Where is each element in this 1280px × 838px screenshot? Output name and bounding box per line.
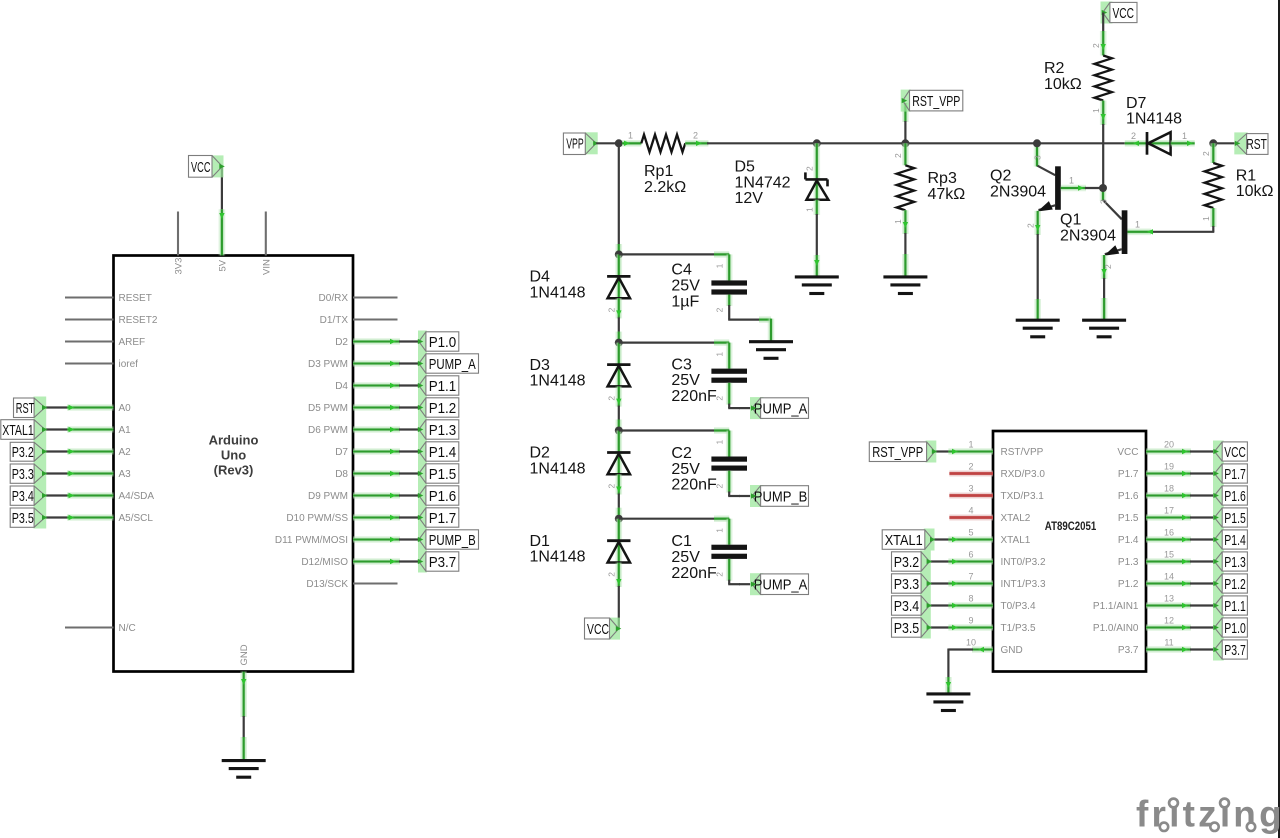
wire P3.5 to pin (930, 625, 993, 630)
svg-text:C3: C3 (671, 356, 692, 373)
wire node E to Q1 collector (1103, 188, 1122, 219)
net label XTAL1 (AT89) (882, 529, 935, 551)
wire RST_VPP to pin 1 (935, 449, 993, 454)
net label P1.2 (418, 397, 459, 419)
pin 5V name (217, 259, 228, 271)
svg-text:VIN: VIN (261, 259, 272, 275)
pin number 1 (968, 440, 973, 450)
net label RST_VPP (AT89) (869, 441, 937, 463)
label D3 value (530, 357, 586, 390)
pin number 16 (1164, 528, 1174, 538)
pin number 5 (968, 528, 973, 538)
svg-text:P1.5: P1.5 (1224, 510, 1246, 527)
pin number 2 (C3) (715, 396, 725, 401)
net label PUMP_B (C2) (750, 485, 809, 507)
svg-text:5V: 5V (217, 259, 228, 271)
wire pin D6 PWM to P1.3 (353, 427, 419, 432)
svg-text:1: 1 (715, 263, 725, 268)
wire node to D1 (615, 519, 622, 563)
svg-text:P1.3: P1.3 (429, 422, 457, 439)
net label RST (right) (1234, 132, 1268, 154)
svg-text:VCC: VCC (191, 159, 211, 176)
pin A3 name (119, 469, 132, 480)
wire D7 anode stub (1125, 141, 1147, 146)
wire D2 anode down (616, 474, 621, 518)
pin 13 name P1.1/AIN1 (1093, 601, 1139, 612)
pin number 1 (C2) (715, 440, 725, 445)
label Rp1 value (644, 163, 686, 196)
pin number 2 (D5) (805, 166, 815, 171)
svg-text:XTAL1: XTAL1 (885, 532, 923, 549)
wire TXD ratsnest (949, 492, 993, 498)
pin number 2 (D7) (1131, 131, 1136, 141)
wire to pin A1 (45, 427, 114, 432)
wire to pin A2 (45, 449, 114, 454)
svg-text:RST/VPP: RST/VPP (1001, 447, 1044, 458)
wire to pin A0 (45, 405, 114, 410)
svg-text:2: 2 (693, 131, 698, 141)
net label P3.5 (AT89) (892, 617, 933, 639)
junction node pump2 (615, 339, 623, 347)
svg-text:RESET2: RESET2 (119, 315, 158, 326)
svg-text:2: 2 (715, 396, 725, 401)
net label P3.7 (418, 551, 459, 573)
net label VCC (top left) (189, 155, 225, 177)
svg-text:P1.7: P1.7 (1118, 469, 1139, 480)
pin 7 name INT1/P3.3 (1001, 579, 1046, 590)
pin VIN name (261, 259, 272, 275)
wire C1 to PUMP_A (728, 559, 750, 584)
junction node pump1 (615, 250, 623, 258)
pin VIN stub (265, 212, 267, 256)
svg-text:PUMP_A: PUMP_A (429, 356, 476, 373)
resistor R1 (1205, 163, 1222, 208)
ground symbol (Rp3) (883, 277, 927, 294)
pin 10 name GND (1001, 645, 1023, 656)
wire to pin A4/SDA (45, 493, 114, 498)
net label P1.7 (418, 507, 459, 529)
svg-text:D1/TX: D1/TX (320, 315, 349, 326)
net label P3.4 (10, 485, 47, 507)
pin RESET stub (65, 296, 114, 298)
svg-text:25V: 25V (671, 372, 700, 389)
label C1 value (671, 533, 717, 582)
border right edge (1278, 0, 1280, 838)
svg-text:D1: D1 (530, 533, 551, 550)
svg-text:220nF: 220nF (671, 477, 717, 494)
wire pin 16 to P1.4 (1146, 537, 1214, 542)
svg-text:3: 3 (1032, 155, 1042, 160)
svg-text:1: 1 (628, 131, 633, 141)
wire pin 14 to P1.2 (1146, 581, 1214, 586)
svg-text:ioref: ioref (119, 359, 139, 370)
svg-text:P1.1: P1.1 (429, 378, 457, 395)
pin number 2 (R2) (1091, 43, 1101, 48)
svg-text:P3.3: P3.3 (12, 466, 34, 483)
svg-text:25V: 25V (671, 461, 700, 478)
wire D5 node to Rp3 node (817, 142, 906, 144)
wire VCC to R2 (1101, 13, 1106, 56)
pin 4 name XTAL2 (1001, 513, 1031, 524)
wire D1 anode to VCC (616, 563, 621, 629)
svg-text:220nF: 220nF (671, 565, 717, 582)
svg-text:D7: D7 (335, 447, 348, 458)
pin number 1 (Q1) (1135, 220, 1140, 230)
pin number 7 (968, 572, 973, 582)
wire pin D11 PWM/MOSI to PUMP_B (353, 537, 419, 542)
net label P3.7 (AT89 pin 11) (1213, 639, 1247, 661)
pin number 1 (Rp1) (628, 131, 633, 141)
wire node to D2 (615, 431, 622, 475)
junction node D (Q2 collector) (1033, 139, 1041, 147)
label D2 value (530, 445, 586, 478)
wire Rp1 to D5 node (685, 141, 817, 146)
net label P1.3 (AT89 pin 15) (1213, 551, 1247, 573)
svg-text:PUMP_B: PUMP_B (429, 532, 476, 549)
wire pin D8 to P1.5 (353, 471, 419, 476)
pin number 1 (Rp3) (893, 219, 903, 224)
pin number 12 (1164, 616, 1174, 626)
wire pin D7 to P1.4 (353, 449, 419, 454)
diode D7 (1147, 132, 1171, 155)
pin number 2 (R1) (1201, 151, 1211, 156)
svg-text:D8: D8 (335, 469, 348, 480)
ground symbol (AT89) (926, 694, 970, 711)
svg-text:P1.3: P1.3 (1118, 557, 1139, 568)
svg-text:P1.0/AIN0: P1.0/AIN0 (1093, 623, 1139, 634)
svg-text:2: 2 (893, 153, 903, 158)
svg-text:D9 PWM: D9 PWM (308, 491, 348, 502)
junction node E (R2/Q2 base/Q1 collector) (1099, 184, 1107, 192)
pin 8 name T0/P3.4 (1001, 601, 1036, 612)
net label VPP (563, 132, 598, 154)
svg-text:RST: RST (1246, 136, 1267, 153)
pin number 1 (C3) (715, 352, 725, 357)
wire pin D4 to P1.1 (353, 383, 419, 388)
svg-text:AT89C2051: AT89C2051 (1045, 519, 1097, 533)
pin A0 name (119, 403, 132, 414)
Arduino Uno U3 block outline (114, 256, 354, 672)
svg-text:Rp3: Rp3 (928, 170, 957, 187)
svg-text:VCC: VCC (1113, 5, 1135, 22)
wire node A down to pump (618, 143, 620, 254)
wire C3 to PUMP_A (728, 383, 750, 408)
label Q2 value (990, 168, 1046, 201)
label D4 value (530, 269, 586, 302)
pin D9 PWM name (308, 491, 348, 502)
net label P3.4 (AT89) (892, 595, 933, 617)
svg-text:2: 2 (715, 484, 725, 489)
pin 9 name T1/P3.5 (1001, 623, 1036, 634)
net label VCC (top right) (1101, 2, 1138, 24)
pin D11 PWM/MOSI name (275, 535, 348, 546)
ground symbol (Q2) (1016, 320, 1060, 337)
pin number 20 (1164, 440, 1174, 450)
net label P3.5 (10, 507, 47, 529)
svg-text:2: 2 (805, 166, 815, 171)
svg-text:P3.2: P3.2 (894, 554, 920, 571)
wire node to C3 (619, 343, 729, 369)
svg-text:2N3904: 2N3904 (990, 183, 1046, 200)
pin number 2 (C2) (715, 484, 725, 489)
pin AREF stub (65, 340, 114, 342)
pin 12 name P1.0/AIN0 (1093, 623, 1139, 634)
pin D4 name (335, 381, 348, 392)
pin 1 name RST/VPP (1001, 447, 1044, 458)
label D5 value (735, 159, 791, 208)
svg-text:P3.4: P3.4 (894, 598, 920, 615)
svg-text:T1/P3.5: T1/P3.5 (1001, 623, 1036, 634)
svg-text:1µF: 1µF (671, 293, 699, 310)
wire Q2 base to node E (1061, 185, 1103, 190)
diode D3 (607, 365, 630, 387)
svg-text:VCC: VCC (1224, 444, 1246, 461)
wire pin D5 PWM to P1.2 (353, 405, 419, 410)
pin D8 name (335, 469, 348, 480)
svg-text:P3.5: P3.5 (12, 510, 34, 527)
pin 17 name P1.5 (1118, 513, 1139, 524)
svg-text:P1.4: P1.4 (1118, 535, 1139, 546)
wire node to D3 (615, 343, 622, 387)
svg-text:P1.2: P1.2 (1118, 579, 1139, 590)
pin number 2 (Rp3) (893, 153, 903, 158)
pin AREF name (119, 337, 146, 348)
net label XTAL1 (1, 419, 48, 441)
svg-text:D10 PWM/SS: D10 PWM/SS (286, 513, 348, 524)
capacitor C2 (711, 457, 747, 471)
svg-text:2: 2 (715, 572, 725, 577)
svg-text:1: 1 (1135, 220, 1140, 230)
svg-text:A3: A3 (119, 469, 132, 480)
pin A5/SCL name (119, 513, 154, 524)
resistor Rp1 (641, 135, 685, 152)
pin number 19 (1164, 462, 1174, 472)
pin number 14 (1164, 572, 1174, 582)
resistor R2 (1095, 56, 1112, 101)
net label P1.5 (AT89 pin 17) (1213, 507, 1247, 529)
pin D1/TX name (320, 315, 349, 326)
svg-text:Q2: Q2 (990, 168, 1011, 185)
svg-text:Rp1: Rp1 (644, 163, 673, 180)
svg-text:P3.5: P3.5 (894, 620, 920, 637)
label C4 value (671, 262, 700, 311)
svg-text:D13/SCK: D13/SCK (306, 579, 348, 590)
wire node A to Rp1 (622, 141, 641, 146)
svg-text:3: 3 (1098, 199, 1108, 204)
svg-text:25V: 25V (671, 278, 700, 295)
pin D12/MISO name (301, 557, 348, 568)
svg-text:3V3: 3V3 (174, 258, 185, 275)
svg-text:Uno: Uno (221, 448, 246, 463)
svg-text:INT1/P3.3: INT1/P3.3 (1001, 579, 1046, 590)
label Q1 value (1060, 212, 1116, 245)
svg-text:R1: R1 (1236, 167, 1257, 184)
pin number 15 (1164, 550, 1174, 560)
svg-text:D5: D5 (735, 159, 756, 176)
diode D1 (607, 541, 630, 563)
svg-text:D6 PWM: D6 PWM (308, 425, 348, 436)
svg-text:4: 4 (968, 506, 973, 516)
svg-text:1: 1 (715, 352, 725, 357)
pin 14 name P1.2 (1118, 579, 1139, 590)
net label P3.2 (10, 441, 47, 463)
svg-text:12V: 12V (735, 190, 764, 207)
pin 3 name TXD/P3.1 (1001, 491, 1045, 502)
pin D1/TX stub (353, 318, 398, 320)
svg-text:D7: D7 (1126, 95, 1147, 112)
svg-text:2: 2 (607, 307, 617, 312)
svg-text:D3: D3 (530, 357, 551, 374)
wire XTAL2 ratsnest (949, 514, 993, 520)
wire pin D3 PWM to PUMP_A (353, 361, 419, 366)
svg-text:10kΩ: 10kΩ (1236, 183, 1274, 200)
wire pin 12 to P1.0 (1146, 625, 1214, 630)
pin RESET name (119, 293, 152, 304)
net label P1.6 (AT89 pin 18) (1213, 485, 1247, 507)
svg-text:P1.2: P1.2 (1224, 576, 1246, 593)
wire RST_VPP label to node C (902, 103, 909, 143)
pin number 2 (D4) (607, 307, 617, 312)
pin 20 name VCC (1117, 447, 1138, 458)
svg-text:RESET: RESET (119, 293, 152, 304)
Arduino Uno title (209, 433, 259, 478)
pin 11 name P3.7 (1118, 645, 1139, 656)
pin number 3 (968, 484, 973, 494)
svg-text:P1.6: P1.6 (1224, 488, 1246, 505)
svg-text:1: 1 (805, 207, 815, 212)
pin D2 name (335, 337, 348, 348)
svg-text:A5/SCL: A5/SCL (119, 513, 154, 524)
svg-text:2: 2 (607, 484, 617, 489)
wire pin D12/MISO to P3.7 (353, 559, 419, 564)
wire pin D2 to P1.0 (353, 339, 419, 344)
junction node A (VPP/Rp1/pump) (615, 139, 623, 147)
pin number 2 (D3) (607, 396, 617, 401)
svg-text:VCC: VCC (587, 621, 609, 638)
svg-text:220nF: 220nF (671, 388, 717, 405)
svg-text:frıtzıng: frıtzıng (1136, 794, 1280, 835)
capacitor C4 (711, 280, 747, 294)
pin RESET2 name (119, 315, 158, 326)
pin number 6 (968, 550, 973, 560)
zener diode D5 (805, 172, 828, 200)
pin number 1 (D7) (1182, 131, 1187, 141)
net label P1.4 (418, 441, 459, 463)
junction node F (D7/R1/RST) (1209, 139, 1217, 147)
pin number 1 (D5) (805, 207, 815, 212)
pin 2 name RXD/P3.0 (1001, 469, 1046, 480)
pin number 13 (1164, 594, 1174, 604)
net label P1.3 (418, 419, 459, 441)
pin 19 name P1.7 (1118, 469, 1139, 480)
pin 15 name P1.3 (1118, 557, 1139, 568)
svg-text:2: 2 (1131, 131, 1136, 141)
svg-text:P3.7: P3.7 (429, 554, 457, 571)
svg-text:1: 1 (715, 528, 725, 533)
wire XTAL1 to pin 5 (933, 537, 993, 542)
svg-text:PUMP_B: PUMP_B (754, 488, 808, 505)
svg-text:3: 3 (968, 484, 973, 494)
svg-text:D4: D4 (530, 269, 551, 286)
svg-text:P1.2: P1.2 (429, 400, 457, 417)
svg-text:A1: A1 (119, 425, 132, 436)
label R1 value (1236, 167, 1274, 200)
svg-text:1: 1 (1069, 176, 1074, 186)
svg-text:1N4148: 1N4148 (530, 549, 586, 566)
svg-text:P3.3: P3.3 (894, 576, 920, 593)
wire node to C1 (619, 519, 729, 545)
capacitor C3 (711, 369, 747, 383)
pin D6 PWM name (308, 425, 348, 436)
wire pin D9 PWM to P1.6 (353, 493, 419, 498)
net label P1.0 (418, 331, 459, 353)
wire node B to D5 (813, 143, 820, 179)
pin GND name (239, 644, 250, 665)
svg-text:XTAL1: XTAL1 (1001, 535, 1031, 546)
label Rp3 value (928, 170, 966, 203)
wire node to C4 (619, 254, 729, 280)
svg-text:C2: C2 (671, 445, 692, 462)
pin 3V3 stub (177, 212, 179, 256)
svg-text:(Rev3): (Rev3) (214, 463, 254, 478)
net label PUMP_A (418, 353, 479, 375)
pin number 1 (R2) (1091, 108, 1101, 113)
svg-text:1N4148: 1N4148 (530, 373, 586, 390)
pin number 2 (C4) (715, 307, 725, 312)
svg-text:TXD/P3.1: TXD/P3.1 (1001, 491, 1045, 502)
net label RST_VPP (top) (901, 90, 963, 112)
svg-text:2: 2 (1103, 264, 1113, 269)
label C2 value (671, 445, 717, 494)
svg-text:P1.1/AIN1: P1.1/AIN1 (1093, 601, 1139, 612)
pin D0/RX name (319, 293, 349, 304)
wire VPP to node (596, 142, 619, 144)
wire pin 15 to P1.3 (1146, 559, 1214, 564)
pin 3V3 name (174, 258, 185, 275)
pin D10 PWM/SS name (286, 513, 348, 524)
pin D0/RX stub (353, 296, 398, 298)
net label P3.2 (AT89) (892, 551, 933, 573)
pin RESET2 stub (65, 318, 114, 320)
net label P3.3 (10, 463, 47, 485)
junction node B (D5) (813, 139, 821, 147)
svg-text:P1.5: P1.5 (429, 466, 457, 483)
wire GND pin to ground (241, 672, 246, 761)
svg-text:P3.2: P3.2 (12, 444, 34, 461)
transistor Q2 2N3904 (1037, 166, 1060, 212)
pin number 17 (1164, 506, 1174, 516)
pin number 9 (968, 616, 973, 626)
wire node to D4 (615, 254, 622, 298)
wire RXD ratsnest (949, 470, 993, 476)
pin number 2 (Q1) (1103, 264, 1113, 269)
wire to pin A5/SCL (45, 515, 114, 520)
label D7 value (1126, 95, 1182, 128)
svg-text:C1: C1 (671, 533, 692, 550)
svg-text:RST_VPP: RST_VPP (912, 93, 960, 110)
pin number 1 (C1) (715, 528, 725, 533)
svg-text:1: 1 (1201, 216, 1211, 221)
svg-text:D3 PWM: D3 PWM (308, 359, 348, 370)
pin number 1 (Q2) (1069, 176, 1074, 186)
net label RST (14, 397, 48, 419)
pin N/C name (119, 623, 136, 634)
svg-text:2N3904: 2N3904 (1060, 227, 1116, 244)
wire pin 19 to P1.7 (1146, 471, 1214, 476)
wire pin 18 to P1.6 (1146, 493, 1214, 498)
pin number 2 (Q2) (1025, 223, 1035, 228)
svg-text:2: 2 (607, 396, 617, 401)
